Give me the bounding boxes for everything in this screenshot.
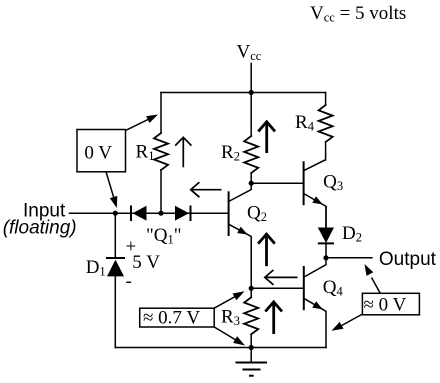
wire bottom rail: [115, 347, 326, 349]
current arrow thick up beside Q2 emitter: [258, 234, 275, 266]
node R3/Q4 base junction: [249, 286, 254, 291]
annotation arrow 0V to input node: [106, 172, 117, 208]
svg-text:(floating): (floating): [3, 218, 77, 239]
resistor R1: [154, 133, 168, 170]
diode D2: [318, 206, 334, 257]
wire D1 bottom: [114, 277, 116, 348]
node Vcc junction: [249, 90, 254, 95]
annotation arrow 0.7V to R3 top node: [214, 291, 244, 308]
svg-text:"Q1": "Q1": [146, 225, 182, 247]
wire R4 top: [325, 93, 327, 106]
resistor R2: [244, 136, 258, 173]
wire top rail: [161, 92, 326, 94]
node input/D1 junction: [113, 211, 118, 216]
wire R3 top: [250, 288, 252, 297]
wire node C to Q4 base: [251, 287, 304, 289]
annotation arrow 0V-out to Q4 emitter wire: [332, 314, 363, 331]
resistor R4: [319, 105, 333, 142]
annotation box 0 V: [77, 130, 126, 172]
wire D1 top: [114, 213, 116, 258]
svg-text:Output: Output: [379, 249, 437, 270]
transistor Q3: [304, 160, 326, 228]
diode D1: [106, 258, 125, 276]
svg-text:≈ 0 V: ≈ 0 V: [364, 295, 407, 316]
wire R4 bottom: [325, 142, 327, 160]
wire R1 bottom: [160, 170, 162, 213]
transistor Q2: [229, 183, 252, 288]
node R2/Q2 collector junction: [249, 181, 254, 186]
node R3/ground junction: [249, 345, 254, 350]
annotation box 0.7 V: [140, 308, 215, 327]
annotation arrow 0V-out to output wire: [365, 264, 381, 293]
ground: [236, 348, 268, 376]
current arrow thick up beside R3: [265, 302, 282, 334]
annotation arrow 0.7V to ground node: [214, 327, 245, 346]
current arrow thick up beside R2: [258, 122, 275, 153]
wire R2 bottom: [250, 173, 252, 183]
annotation arrow 0V to R1 wire: [126, 115, 159, 131]
wire Vcc stub: [250, 64, 252, 137]
current arrow open left above Q2 base: [191, 182, 222, 197]
wire output: [326, 257, 372, 259]
resistor R3: [244, 297, 258, 334]
diode Q1 base-collector right: [175, 206, 191, 222]
svg-text:0 V: 0 V: [84, 143, 112, 164]
transistor Q4: [304, 258, 326, 348]
wire input: [70, 212, 229, 214]
svg-text:≈ 0.7 V: ≈ 0.7 V: [143, 308, 200, 329]
diode Q1 base-emitter left: [131, 206, 147, 222]
current arrow thin up beside R1: [175, 137, 191, 167]
current arrow open left above Q4 base: [265, 270, 298, 285]
wire node B to Q3 base: [251, 182, 303, 184]
annotation box approx 0 V: [362, 293, 419, 315]
svg-text:5 V: 5 V: [132, 252, 160, 273]
svg-text:-: -: [126, 271, 132, 292]
wire R1 top: [160, 93, 162, 134]
wire R3 bottom: [250, 334, 252, 347]
node output junction: [323, 255, 328, 260]
node input/R1 junction: [158, 211, 163, 216]
